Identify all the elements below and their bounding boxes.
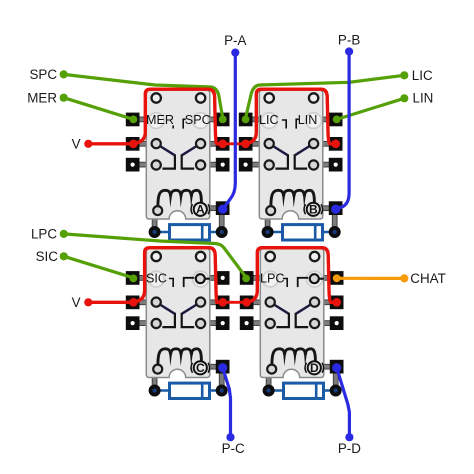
wire pad-to-pad (snubber) relay B xyxy=(268,231,335,234)
reference designator (C) xyxy=(194,361,207,374)
changeover contact right A xyxy=(182,154,195,168)
svg-text:A: A xyxy=(196,203,205,217)
terminal R1 relay B xyxy=(329,113,343,127)
wire V around relay C xyxy=(133,248,223,303)
svg-text:P-B: P-B xyxy=(338,33,360,48)
terminal L2 relay B xyxy=(239,137,253,151)
snubber component A xyxy=(170,225,210,240)
terminal R3 relay C xyxy=(216,316,230,330)
solder pad left relay A xyxy=(149,226,161,238)
terminal R3 relay D xyxy=(330,316,344,330)
changeover contact right D xyxy=(296,313,309,327)
wire P-D xyxy=(337,368,350,438)
terminal L1 relay D xyxy=(240,271,254,285)
wire V around relay D xyxy=(247,248,337,303)
relay body B xyxy=(259,90,323,219)
terminal L1 relay C xyxy=(126,271,140,285)
coil D xyxy=(272,349,316,364)
terminal R3 relay B xyxy=(329,158,343,172)
terminal L2 relay A xyxy=(126,137,140,151)
wire pad-to-pad (snubber) relay D xyxy=(269,389,336,392)
coil B xyxy=(271,190,315,205)
wire C to D xyxy=(223,301,247,304)
svg-text:SPC: SPC xyxy=(185,113,211,127)
coil terminal ring C xyxy=(153,365,162,374)
svg-text:B: B xyxy=(309,203,318,217)
terminal L1 relay A xyxy=(126,113,140,127)
changeover contact left A xyxy=(162,154,175,168)
svg-text:P-A: P-A xyxy=(224,33,246,48)
terminal Rcoil relay B xyxy=(329,201,343,215)
terminal R2 relay D xyxy=(330,296,344,310)
svg-text:V: V xyxy=(72,136,81,151)
mounting hole top-right B xyxy=(309,93,318,102)
terminal L2 relay C xyxy=(126,296,140,310)
relay module B xyxy=(239,90,343,240)
terminal Rcoil relay A xyxy=(216,201,230,215)
NC contact mark A xyxy=(172,125,174,128)
coil terminal ring B xyxy=(266,206,275,215)
wire pad-to-pad (snubber) relay C xyxy=(155,389,222,392)
svg-text:LIN: LIN xyxy=(298,113,318,127)
wire pad-to-pad (snubber) relay A xyxy=(155,231,222,234)
mounting hole top-left C xyxy=(152,252,161,261)
relay module C xyxy=(126,249,230,399)
terminal L3 relay D xyxy=(240,316,254,330)
coil C xyxy=(158,349,202,364)
solder pad left relay C xyxy=(149,385,161,397)
terminal L1 relay B xyxy=(239,113,253,127)
terminal Rcoil relay D xyxy=(330,360,344,374)
svg-text:LPC: LPC xyxy=(260,272,285,286)
wire V upper xyxy=(88,142,132,145)
solder pad left relay D xyxy=(263,385,275,397)
solder pad right relay C xyxy=(216,385,228,397)
relay module A xyxy=(126,90,230,240)
wire V around relay A xyxy=(133,89,223,144)
NC contact mark B xyxy=(282,120,286,129)
snubber component B xyxy=(283,225,323,240)
snubber component C xyxy=(170,383,210,398)
terminal R2 relay B xyxy=(329,137,343,151)
terminal L3 relay C xyxy=(126,316,140,330)
terminal R2 relay A xyxy=(216,137,230,151)
terminal Rcoil relay C xyxy=(216,360,230,374)
NO contact mark B xyxy=(296,119,299,129)
svg-text:LIC: LIC xyxy=(412,68,433,83)
terminal R1 relay A xyxy=(216,113,230,127)
relay body A xyxy=(146,90,210,219)
solder pad left relay B xyxy=(262,226,274,238)
relay body D xyxy=(260,249,324,378)
NO contact mark D xyxy=(298,278,309,287)
wire LPC xyxy=(64,234,246,278)
svg-text:SIC: SIC xyxy=(36,249,59,264)
snubber component D xyxy=(284,383,324,398)
changeover contact left D xyxy=(276,313,289,327)
svg-text:P-C: P-C xyxy=(222,441,245,456)
svg-text:P-D: P-D xyxy=(338,441,361,456)
NO contact mark A xyxy=(183,119,186,129)
reference designator (A) xyxy=(194,203,207,216)
svg-text:CHAT: CHAT xyxy=(410,271,445,286)
wire SPC xyxy=(64,74,223,118)
changeover contact right C xyxy=(182,313,195,327)
coil terminal ring D xyxy=(267,365,276,374)
svg-text:SPC: SPC xyxy=(29,67,57,82)
solder pad right relay B xyxy=(329,226,341,238)
changeover contact left C xyxy=(162,313,175,327)
coil terminal ring A xyxy=(153,206,162,215)
mounting hole top-right D xyxy=(310,252,319,261)
NC contact mark D xyxy=(283,279,287,288)
mounting hole top-left D xyxy=(266,252,275,261)
svg-text:C: C xyxy=(196,361,205,375)
wire V around relay B xyxy=(246,89,336,144)
coil A xyxy=(158,190,202,205)
svg-text:LPC: LPC xyxy=(31,227,57,242)
svg-text:D: D xyxy=(310,361,319,375)
svg-text:LIN: LIN xyxy=(413,91,434,106)
terminal L2 relay D xyxy=(240,296,254,310)
svg-text:MER: MER xyxy=(27,90,57,105)
mounting hole top-left A xyxy=(152,93,161,102)
wire MER xyxy=(64,98,134,120)
wire LIN xyxy=(337,98,405,119)
mounting hole top-right A xyxy=(196,93,205,102)
svg-text:LIC: LIC xyxy=(259,113,279,127)
wire LIC xyxy=(246,75,405,118)
mounting hole top-left B xyxy=(265,93,274,102)
terminal R2 relay C xyxy=(216,296,230,310)
mounting hole top-right C xyxy=(196,252,205,261)
reference designator (B) xyxy=(307,203,320,216)
NO contact mark C xyxy=(184,278,195,287)
wire SIC xyxy=(64,256,134,278)
reference designator (D) xyxy=(308,361,321,374)
terminal R3 relay A xyxy=(216,158,230,172)
svg-text:V: V xyxy=(72,295,81,310)
wire CHAT xyxy=(337,277,405,280)
wire V lower xyxy=(88,301,132,304)
wire P-B xyxy=(336,52,349,210)
changeover contact left B xyxy=(275,154,288,168)
relay module D xyxy=(240,249,344,399)
svg-text:SIC: SIC xyxy=(146,272,167,286)
terminal R1 relay D xyxy=(330,271,344,285)
relay body C xyxy=(146,249,210,378)
wire P-A xyxy=(223,53,236,210)
terminal R1 relay C xyxy=(216,271,230,285)
NC contact mark C xyxy=(169,279,173,288)
solder pad right relay A xyxy=(216,226,228,238)
solder pad right relay D xyxy=(330,385,342,397)
wire P-C xyxy=(223,368,231,438)
changeover contact right B xyxy=(295,154,308,168)
wire A to B xyxy=(223,142,246,145)
terminal L3 relay A xyxy=(126,158,140,172)
terminal L3 relay B xyxy=(239,158,253,172)
svg-text:MER: MER xyxy=(146,113,174,127)
